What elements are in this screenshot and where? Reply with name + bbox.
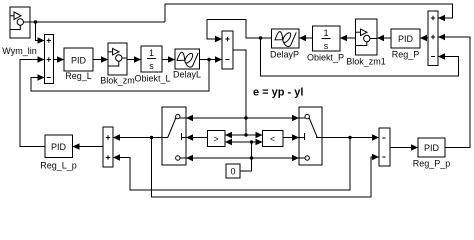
wire Obiekt_P to DelayP (299, 37, 313, 39)
wire yl feedback to S1 minus (31, 60, 209, 92)
svg-text:PID: PID (398, 34, 414, 44)
junction node dots (34, 20, 352, 159)
integrator Obiekt_L (141, 46, 162, 72)
relational operator GT (208, 131, 226, 147)
icon DelayP sine curves (275, 31, 296, 46)
svg-text:Wym_lin: Wym_lin (2, 46, 36, 56)
wire zero constant up (240, 142, 252, 171)
wire S3 to Reg_L_p (73, 146, 104, 148)
text 1/s Obiekt_L (147, 48, 156, 71)
svg-text:0: 0 (230, 167, 235, 177)
wire Reg_L_p loop to S1 plus2 (20, 60, 45, 147)
wire S4 to Reg_P_p (390, 147, 418, 149)
icon Wym_lin triangle circle (10, 12, 30, 30)
wire Reg_L to Blok_zm (93, 59, 108, 61)
svg-text:Reg_L_p: Reg_L_p (40, 161, 77, 171)
sign plus marks S1 (47, 38, 51, 77)
sign marks S5 (431, 16, 435, 57)
text LT symbol (270, 134, 275, 144)
text PID Reg_L_p (51, 142, 67, 152)
svg-text:Obiekt_P: Obiekt_P (307, 53, 344, 63)
icon Blok_zm triangle circle (108, 49, 127, 67)
icon switch SW1 lever and ports (162, 114, 186, 160)
label Reg_L (65, 71, 92, 81)
wire SW1 output cross to S4 minus2 (152, 138, 380, 198)
PID controller Reg_P_p (418, 138, 445, 157)
wire S1 to Reg_L (54, 59, 65, 61)
sign marks S2 (225, 37, 229, 60)
wire Reg_P to Blok_zm1 (377, 37, 391, 39)
text PID Reg_P_p (424, 143, 440, 153)
wire Blok_zm1 to Obiekt_P (340, 37, 356, 39)
svg-text:Reg_P: Reg_P (392, 50, 420, 60)
wire LT output to SW2 control (283, 137, 299, 139)
constant 0 (226, 164, 240, 178)
source block Wym_lin (10, 7, 30, 38)
svg-text:>: > (213, 134, 218, 144)
svg-text:PID: PID (424, 143, 440, 153)
svg-text:DelayP: DelayP (270, 50, 299, 60)
wire DelayL to S2 minus (200, 59, 223, 61)
PID controller Reg_L_p (45, 135, 73, 158)
svg-text:PID: PID (51, 142, 67, 152)
transport delay DelayL (175, 49, 200, 69)
svg-text:s: s (324, 41, 329, 51)
sign marks S3 (106, 135, 110, 159)
wire yp to S5 minus (261, 38, 459, 76)
wire Blok_zm to Obiekt_L (127, 59, 141, 61)
switch SW1 (162, 107, 186, 165)
text PID Reg_P (398, 34, 414, 44)
label Blok_zm1 (346, 57, 386, 67)
PID controller Reg_L (64, 48, 93, 71)
label Reg_P_p (413, 159, 451, 169)
wire S5 to Reg_P (420, 37, 428, 39)
label Obiekt_P (307, 53, 344, 63)
label Reg_P (392, 50, 420, 60)
wire reference to S5 over top (165, 4, 453, 22)
wire e from S2 down (233, 50, 246, 135)
svg-text:Blok_zm1: Blok_zm1 (346, 57, 386, 67)
svg-text:Blok_zm: Blok_zm (100, 76, 135, 86)
label DelayP (270, 50, 299, 60)
svg-text:1: 1 (323, 28, 328, 38)
arrowheads right-pointing (38, 36, 419, 161)
sum S5 (428, 11, 438, 66)
svg-text:Reg_L: Reg_L (65, 71, 92, 81)
annotation e equals yp minus yl (253, 87, 303, 99)
text PID Reg_L (71, 56, 87, 66)
integrator Obiekt_P (313, 26, 341, 51)
sum S4 (379, 128, 390, 166)
wire SW1 output to S3 plus1 (113, 137, 162, 139)
wire e to switch top inputs (186, 117, 299, 119)
sum S2 (222, 31, 233, 69)
text 1/s Obiekt_P (322, 28, 331, 51)
wire Reg_P_p loop to S5 plus2 (438, 37, 470, 148)
wire branch to S1 plus1 (36, 22, 45, 41)
wire GT output to SW1 control (186, 137, 208, 139)
icon switch SW2 lever and ports (299, 114, 322, 160)
svg-text:DelayL: DelayL (173, 70, 201, 80)
label Wym_lin (2, 46, 36, 56)
text GT symbol (213, 134, 218, 144)
wire SW2 output to S4 minus1 (322, 137, 379, 139)
svg-text:<: < (270, 134, 275, 144)
svg-text:Reg_P_p: Reg_P_p (413, 159, 451, 169)
svg-text:PID: PID (71, 56, 87, 66)
wire Wym_lin output (30, 21, 165, 23)
label Blok_zm (100, 76, 135, 86)
svg-text:1: 1 (149, 48, 154, 58)
block Blok_zm1 (356, 19, 378, 55)
wire DelayP output around to S2 plus (207, 20, 272, 40)
icon DelayL sine curves (177, 52, 198, 67)
transport delay DelayP (272, 29, 300, 48)
wire comparator input e (225, 134, 263, 136)
label DelayL (173, 70, 201, 80)
svg-text:Obiekt_L: Obiekt_L (134, 74, 170, 84)
wire SW2 output cross to S3 plus2 (113, 138, 350, 191)
sum S1 (45, 35, 54, 84)
label Obiekt_L (134, 74, 170, 84)
sign marks S4 (382, 138, 385, 157)
wire comparator input zero (225, 141, 263, 143)
arrowheads left-pointing (73, 15, 446, 161)
svg-text:e = yp - yl: e = yp - yl (253, 87, 303, 99)
block Blok_zm (108, 43, 127, 75)
svg-text:s: s (149, 61, 154, 71)
wire Obiekt_L to DelayL (162, 59, 175, 61)
PID controller Reg_P (391, 29, 420, 48)
label Reg_L_p (40, 161, 77, 171)
wire zero to switch bottom inputs (186, 157, 299, 159)
text constant zero (230, 167, 235, 177)
relational operator LT (263, 131, 284, 147)
switch SW2 (299, 107, 322, 165)
icon Blok_zm1 triangle circle (356, 29, 378, 46)
sum S3 (103, 127, 113, 167)
